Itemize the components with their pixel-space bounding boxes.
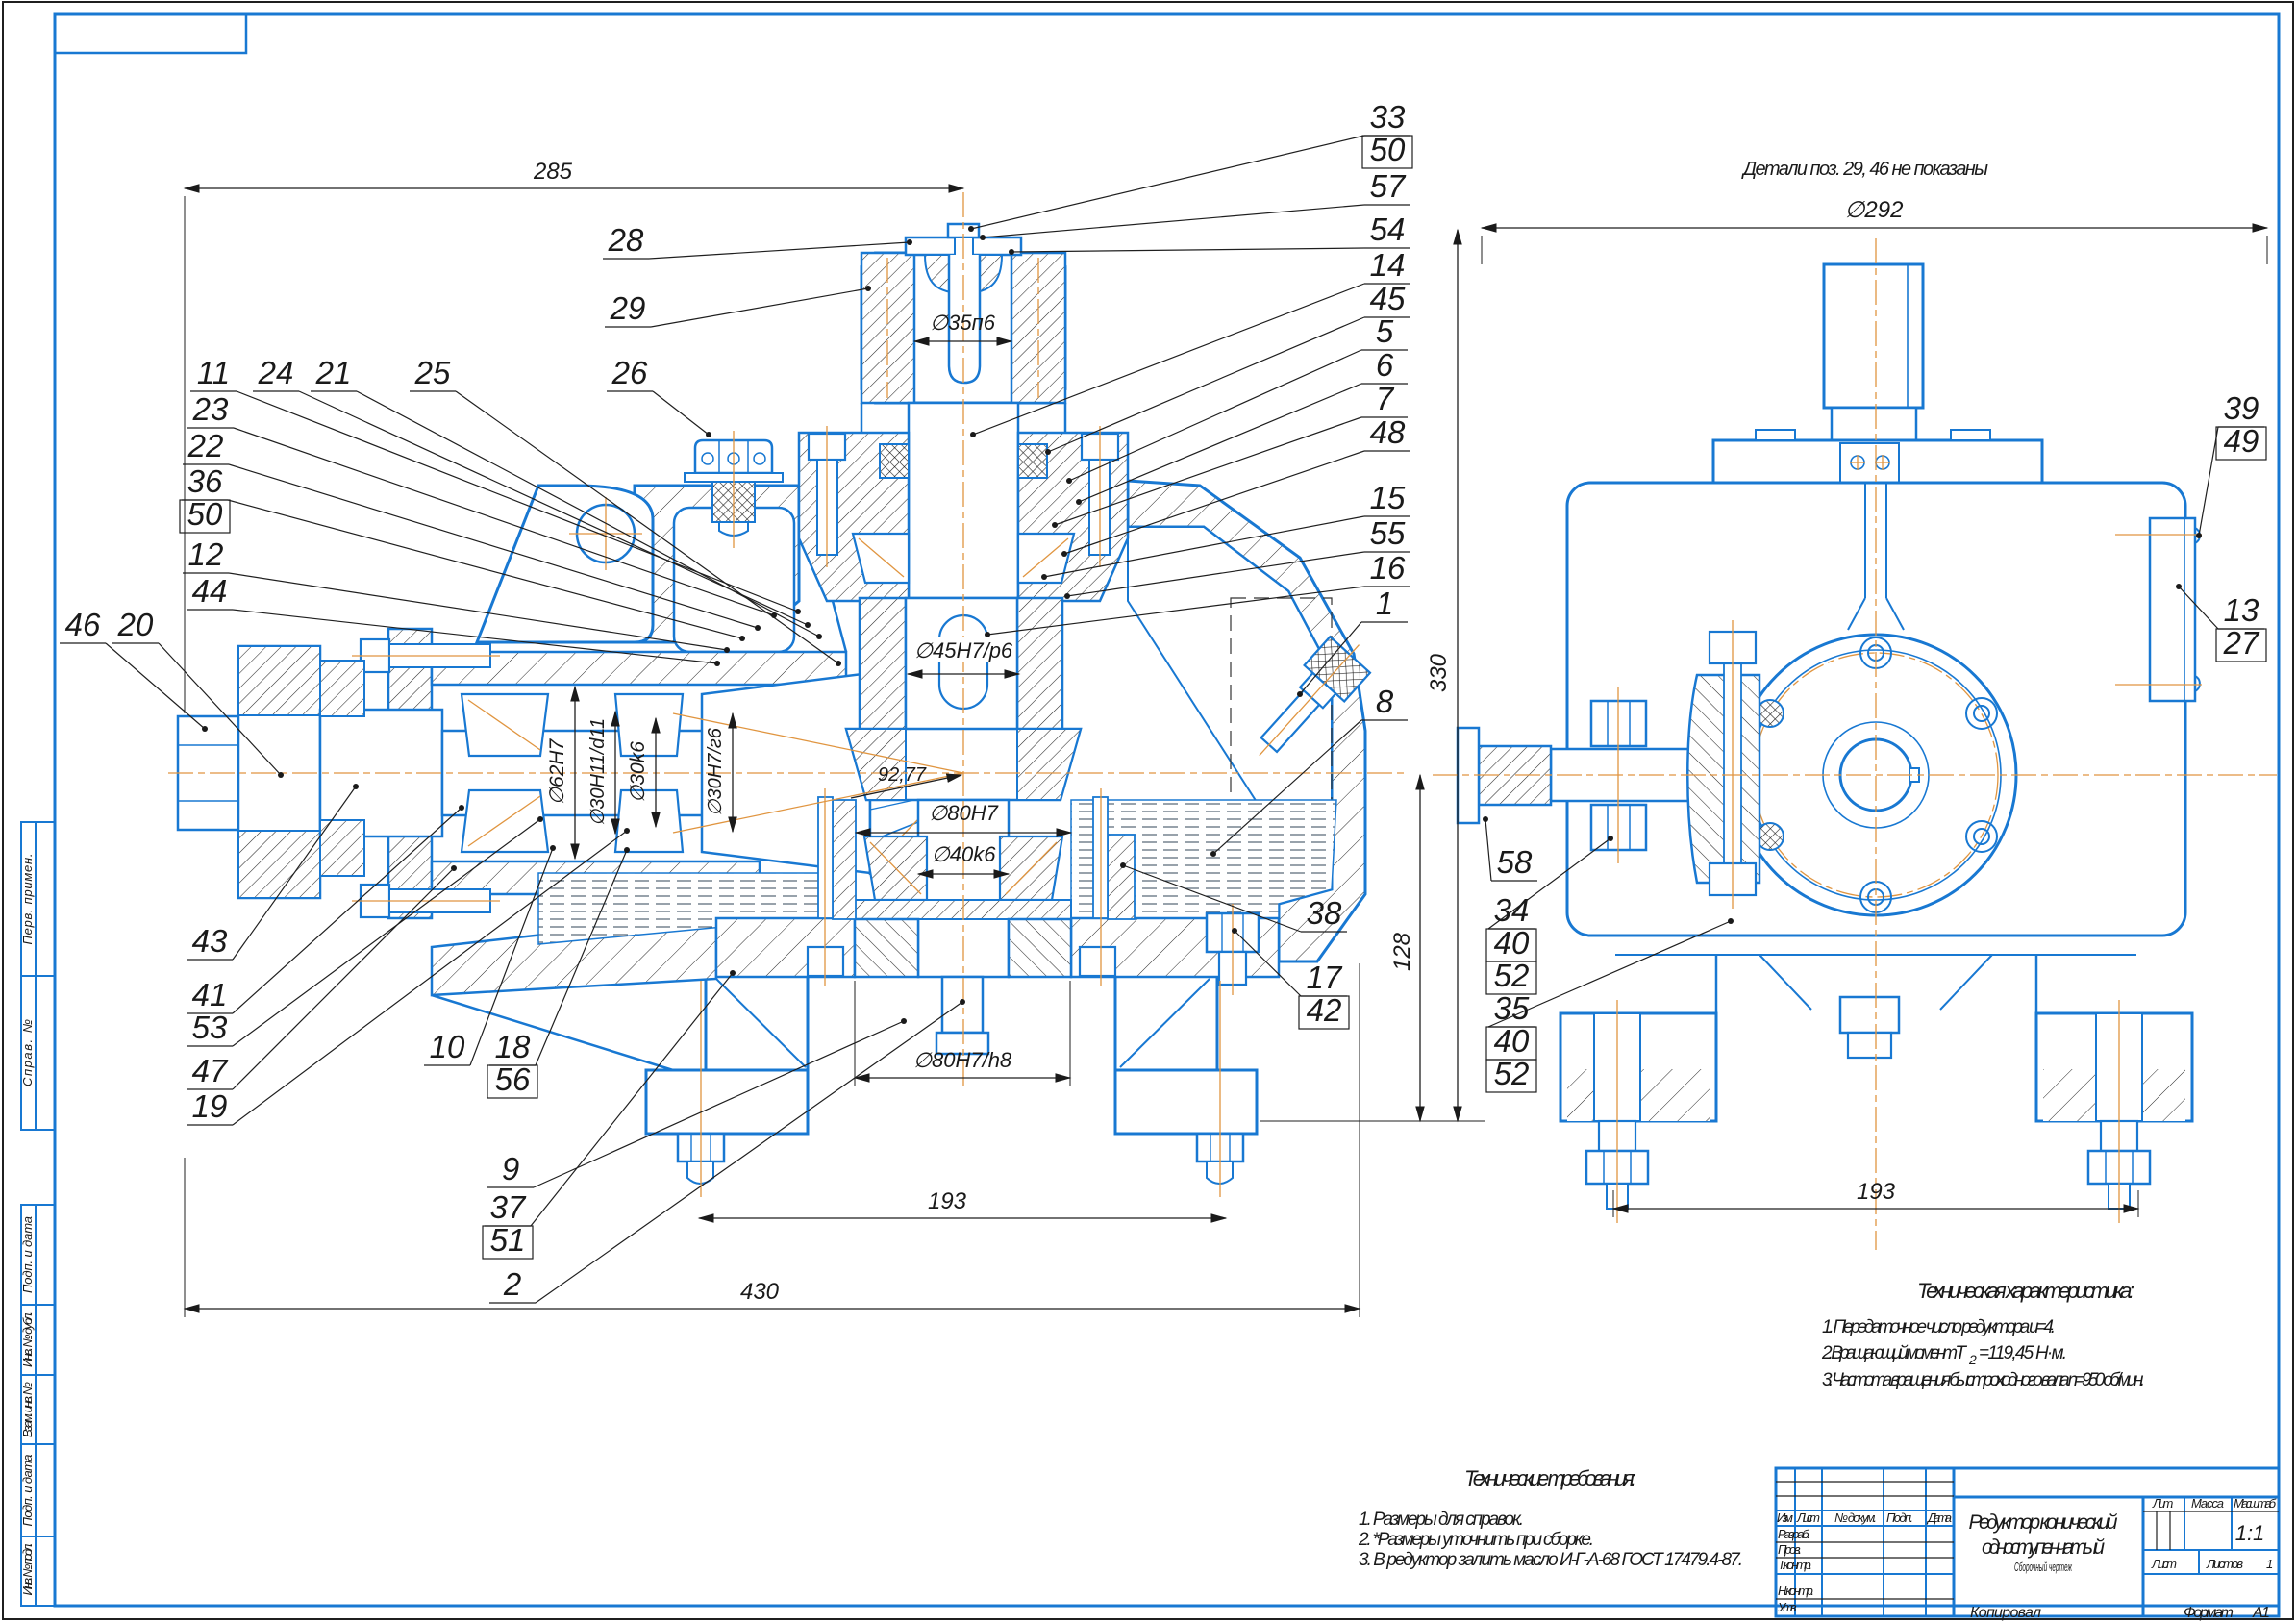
- svg-text:∅30k6: ∅30k6: [627, 741, 649, 803]
- svg-text:55: 55: [1370, 515, 1406, 551]
- svg-text:8: 8: [1376, 684, 1394, 719]
- svg-text:1. Размеры для справок.: 1. Размеры для справок.: [1359, 1510, 1524, 1530]
- svg-text:Подп. и дата: Подп. и дата: [20, 1216, 35, 1293]
- svg-text:46: 46: [65, 607, 101, 642]
- svg-text:∅62H7: ∅62H7: [546, 737, 568, 805]
- svg-text:21: 21: [315, 355, 352, 390]
- svg-text:Сборочный чертеж: Сборочный чертеж: [2014, 1560, 2073, 1574]
- svg-text:12: 12: [188, 537, 224, 572]
- svg-text:Листов: Листов: [2206, 1557, 2243, 1571]
- svg-text:Копировал: Копировал: [1970, 1605, 2041, 1621]
- svg-text:40: 40: [1494, 925, 1530, 961]
- svg-text:15: 15: [1370, 480, 1406, 515]
- svg-text:29: 29: [610, 290, 646, 326]
- svg-text:24: 24: [258, 355, 294, 390]
- svg-text:∅30H7/г6: ∅30H7/г6: [705, 727, 726, 816]
- svg-text:16: 16: [1370, 550, 1406, 586]
- svg-text:45: 45: [1370, 281, 1406, 316]
- svg-text:430: 430: [740, 1279, 780, 1305]
- svg-text:Подп.: Подп.: [1886, 1511, 1913, 1525]
- svg-text:25: 25: [414, 355, 451, 390]
- svg-text:Масштаб: Масштаб: [2234, 1496, 2277, 1511]
- svg-text:Взам. инв. №: Взам. инв. №: [20, 1382, 35, 1437]
- svg-text:1:1: 1:1: [2235, 1521, 2265, 1545]
- svg-text:∅80H7: ∅80H7: [929, 801, 999, 825]
- svg-text:41: 41: [192, 977, 228, 1012]
- svg-text:Редуктор конический: Редуктор конический: [1969, 1511, 2118, 1534]
- svg-text:330: 330: [1426, 653, 1452, 692]
- svg-text:2. Вращающий момент Т: 2. Вращающий момент Т: [1821, 1343, 1967, 1363]
- svg-text:47: 47: [192, 1053, 229, 1088]
- svg-text:34: 34: [1494, 892, 1530, 928]
- svg-text:35: 35: [1494, 990, 1530, 1026]
- svg-text:3. Частота вращения быстроходн: 3. Частота вращения быстроходного вала n…: [1822, 1370, 2145, 1390]
- svg-text:Разраб.: Разраб.: [1778, 1527, 1810, 1541]
- svg-text:11: 11: [197, 355, 230, 390]
- svg-text:43: 43: [192, 923, 228, 959]
- svg-text:37: 37: [490, 1189, 527, 1225]
- svg-text:22: 22: [187, 428, 224, 463]
- svg-text:Лист: Лист: [2151, 1557, 2177, 1571]
- svg-text:Утв.: Утв.: [1777, 1600, 1797, 1614]
- svg-text:∅80H7/h8: ∅80H7/h8: [913, 1048, 1012, 1072]
- svg-text:193: 193: [1857, 1179, 1896, 1205]
- svg-text:17: 17: [1307, 960, 1343, 995]
- svg-text:Пров.: Пров.: [1778, 1542, 1802, 1557]
- svg-text:57: 57: [1370, 168, 1407, 204]
- svg-text:50: 50: [1370, 132, 1406, 167]
- svg-text:14: 14: [1370, 247, 1406, 283]
- svg-text:Технические требования:: Технические требования:: [1464, 1466, 1636, 1490]
- svg-text:Лист: Лист: [1796, 1511, 1820, 1525]
- svg-text:27: 27: [2223, 625, 2260, 661]
- svg-text:40: 40: [1494, 1023, 1530, 1059]
- svg-text:42: 42: [1307, 992, 1342, 1028]
- svg-text:52: 52: [1494, 1056, 1530, 1091]
- svg-text:=119,45 Н·м.: =119,45 Н·м.: [1979, 1343, 2067, 1363]
- svg-text:48: 48: [1370, 414, 1406, 450]
- svg-text:28: 28: [608, 222, 644, 258]
- svg-text:Лит.: Лит.: [2152, 1496, 2174, 1511]
- svg-text:38: 38: [1307, 895, 1342, 931]
- svg-text:20: 20: [117, 607, 154, 642]
- svg-text:18: 18: [495, 1029, 531, 1064]
- svg-text:Н.контр.: Н.контр.: [1778, 1584, 1814, 1598]
- svg-text:128: 128: [1389, 932, 1415, 971]
- svg-text:9: 9: [502, 1151, 519, 1186]
- svg-text:285: 285: [533, 159, 573, 185]
- svg-text:1. Передаточное число редуктор: 1. Передаточное число редуктора u=4.: [1822, 1317, 2056, 1337]
- svg-text:33: 33: [1370, 99, 1406, 135]
- svg-text:44: 44: [192, 573, 228, 609]
- svg-text:∅30H11/d11: ∅30H11/d11: [587, 718, 609, 826]
- svg-text:49: 49: [2224, 423, 2259, 459]
- svg-text:19: 19: [192, 1088, 228, 1124]
- svg-text:Формат: Формат: [2184, 1605, 2234, 1621]
- svg-text:∅45H7/р6: ∅45H7/р6: [914, 638, 1013, 662]
- svg-text:7: 7: [1376, 381, 1395, 416]
- svg-text:А1: А1: [2252, 1605, 2270, 1621]
- svg-text:одноступенчатый: одноступенчатый: [1982, 1536, 2105, 1559]
- svg-text:∅35п6: ∅35п6: [930, 311, 996, 335]
- svg-text:56: 56: [495, 1061, 531, 1097]
- svg-text:52: 52: [1494, 958, 1530, 993]
- svg-text:Инв. № дубл.: Инв. № дубл.: [20, 1311, 35, 1367]
- svg-text:Подп. и дата: Подп. и дата: [20, 1455, 35, 1527]
- svg-text:26: 26: [611, 355, 648, 390]
- svg-text:92,77: 92,77: [878, 764, 927, 786]
- svg-text:51: 51: [490, 1222, 526, 1258]
- svg-text:6: 6: [1376, 347, 1394, 383]
- svg-text:Инв. № подл.: Инв. № подл.: [20, 1543, 35, 1596]
- svg-text:Т.контр.: Т.контр.: [1778, 1558, 1812, 1572]
- svg-text:54: 54: [1370, 212, 1406, 247]
- svg-text:1: 1: [2266, 1557, 2273, 1571]
- svg-text:∅292: ∅292: [1845, 197, 1904, 223]
- svg-text:5: 5: [1376, 313, 1394, 349]
- svg-text:1: 1: [1376, 586, 1393, 621]
- svg-text:193: 193: [928, 1188, 967, 1214]
- svg-text:58: 58: [1497, 844, 1533, 880]
- svg-text:Дата: Дата: [1926, 1511, 1952, 1525]
- svg-text:Изм.: Изм.: [1777, 1511, 1793, 1525]
- svg-text:13: 13: [2224, 592, 2259, 628]
- svg-text:2: 2: [1968, 1352, 1977, 1367]
- svg-text:Перв. примен.: Перв. примен.: [20, 854, 35, 945]
- svg-text:23: 23: [192, 391, 229, 427]
- svg-text:Масса: Масса: [2191, 1496, 2224, 1511]
- svg-text:2. *Размеры уточнить при сборк: 2. *Размеры уточнить при сборке.: [1358, 1530, 1594, 1550]
- svg-text:36: 36: [187, 463, 223, 499]
- svg-text:2: 2: [503, 1266, 521, 1302]
- svg-text:10: 10: [430, 1029, 465, 1064]
- svg-text:50: 50: [187, 496, 223, 532]
- svg-text:№ докум.: № докум.: [1834, 1511, 1877, 1525]
- svg-text:Справ. №: Справ. №: [20, 1019, 35, 1086]
- svg-text:39: 39: [2224, 390, 2259, 426]
- svg-text:3. В редуктор залить масло И-Г: 3. В редуктор залить масло И-Г-А-68 ГОСТ…: [1359, 1550, 1743, 1570]
- svg-text:53: 53: [192, 1010, 228, 1045]
- svg-text:Техническая характеристика:: Техническая характеристика:: [1917, 1279, 2134, 1303]
- svg-text:∅40k6: ∅40k6: [932, 842, 997, 866]
- svg-text:Детали поз. 29, 46 не показаны: Детали поз. 29, 46 не показаны: [1741, 159, 1988, 180]
